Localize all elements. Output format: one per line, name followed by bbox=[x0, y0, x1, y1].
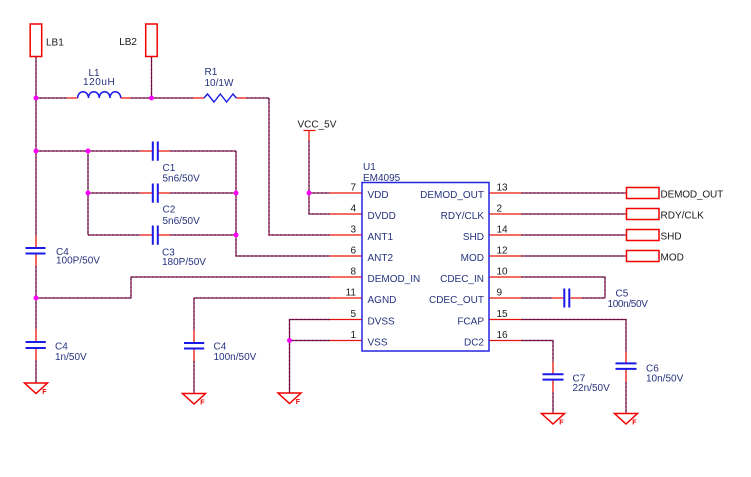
svg-text:F: F bbox=[559, 419, 564, 426]
svg-text:R1: R1 bbox=[205, 67, 218, 78]
svg-text:180P/50V: 180P/50V bbox=[162, 257, 206, 268]
svg-text:5n6/50V: 5n6/50V bbox=[163, 216, 201, 227]
svg-text:8: 8 bbox=[350, 267, 356, 278]
svg-text:EM4095: EM4095 bbox=[363, 173, 401, 184]
svg-text:F: F bbox=[42, 389, 47, 396]
svg-text:C1: C1 bbox=[163, 163, 176, 174]
svg-text:DEMOD_OUT: DEMOD_OUT bbox=[661, 190, 724, 201]
svg-text:DEMOD_OUT: DEMOD_OUT bbox=[420, 190, 484, 201]
svg-text:C2: C2 bbox=[163, 205, 176, 216]
svg-text:10: 10 bbox=[497, 267, 509, 278]
svg-text:F: F bbox=[296, 399, 301, 406]
svg-text:14: 14 bbox=[497, 225, 509, 236]
svg-text:C4: C4 bbox=[214, 342, 227, 353]
svg-text:LB1: LB1 bbox=[46, 38, 64, 49]
svg-text:VCC_5V: VCC_5V bbox=[298, 120, 337, 131]
svg-text:C5: C5 bbox=[616, 289, 629, 300]
svg-text:10/1W: 10/1W bbox=[205, 78, 234, 89]
svg-text:C4: C4 bbox=[55, 342, 68, 353]
svg-text:22n/50V: 22n/50V bbox=[573, 383, 611, 394]
svg-text:MOD: MOD bbox=[661, 253, 684, 264]
svg-text:CDEC_OUT: CDEC_OUT bbox=[429, 295, 484, 306]
svg-text:DVDD: DVDD bbox=[368, 211, 396, 222]
svg-text:15: 15 bbox=[497, 309, 509, 320]
svg-text:ANT2: ANT2 bbox=[368, 253, 394, 264]
svg-text:13: 13 bbox=[497, 183, 509, 194]
svg-text:LB2: LB2 bbox=[119, 37, 137, 48]
svg-text:RDY/CLK: RDY/CLK bbox=[661, 211, 705, 222]
svg-text:ANT1: ANT1 bbox=[368, 232, 394, 243]
svg-text:2: 2 bbox=[497, 204, 503, 215]
svg-text:4: 4 bbox=[350, 204, 356, 215]
svg-text:16: 16 bbox=[497, 330, 509, 341]
svg-text:RDY/CLK: RDY/CLK bbox=[441, 211, 485, 222]
svg-text:9: 9 bbox=[497, 288, 503, 299]
svg-text:6: 6 bbox=[350, 246, 356, 257]
svg-text:FCAP: FCAP bbox=[457, 317, 484, 328]
svg-text:MOD: MOD bbox=[461, 253, 484, 264]
svg-text:DC2: DC2 bbox=[464, 338, 484, 349]
svg-text:1: 1 bbox=[350, 330, 356, 341]
svg-text:U1: U1 bbox=[363, 162, 376, 173]
svg-text:5: 5 bbox=[350, 309, 356, 320]
svg-text:VSS: VSS bbox=[368, 338, 388, 349]
svg-text:SHD: SHD bbox=[463, 232, 484, 243]
svg-text:12: 12 bbox=[497, 246, 509, 257]
svg-text:100n/50V: 100n/50V bbox=[608, 299, 649, 310]
svg-text:10n/50V: 10n/50V bbox=[646, 373, 684, 384]
svg-text:DVSS: DVSS bbox=[368, 317, 396, 328]
svg-text:7: 7 bbox=[350, 183, 356, 194]
svg-text:1n/50V: 1n/50V bbox=[55, 352, 87, 363]
svg-text:3: 3 bbox=[350, 225, 356, 236]
svg-text:AGND: AGND bbox=[368, 295, 397, 306]
svg-text:CDEC_IN: CDEC_IN bbox=[440, 274, 484, 285]
svg-text:5n6/50V: 5n6/50V bbox=[163, 174, 201, 185]
svg-text:F: F bbox=[200, 399, 205, 406]
svg-text:F: F bbox=[632, 419, 637, 426]
svg-text:11: 11 bbox=[346, 288, 357, 299]
svg-text:100P/50V: 100P/50V bbox=[56, 256, 100, 267]
svg-text:SHD: SHD bbox=[661, 232, 682, 243]
svg-text:DEMOD_IN: DEMOD_IN bbox=[368, 274, 421, 285]
svg-text:100n/50V: 100n/50V bbox=[214, 352, 257, 363]
svg-text:VDD: VDD bbox=[368, 190, 389, 201]
svg-text:120uH: 120uH bbox=[83, 77, 115, 88]
